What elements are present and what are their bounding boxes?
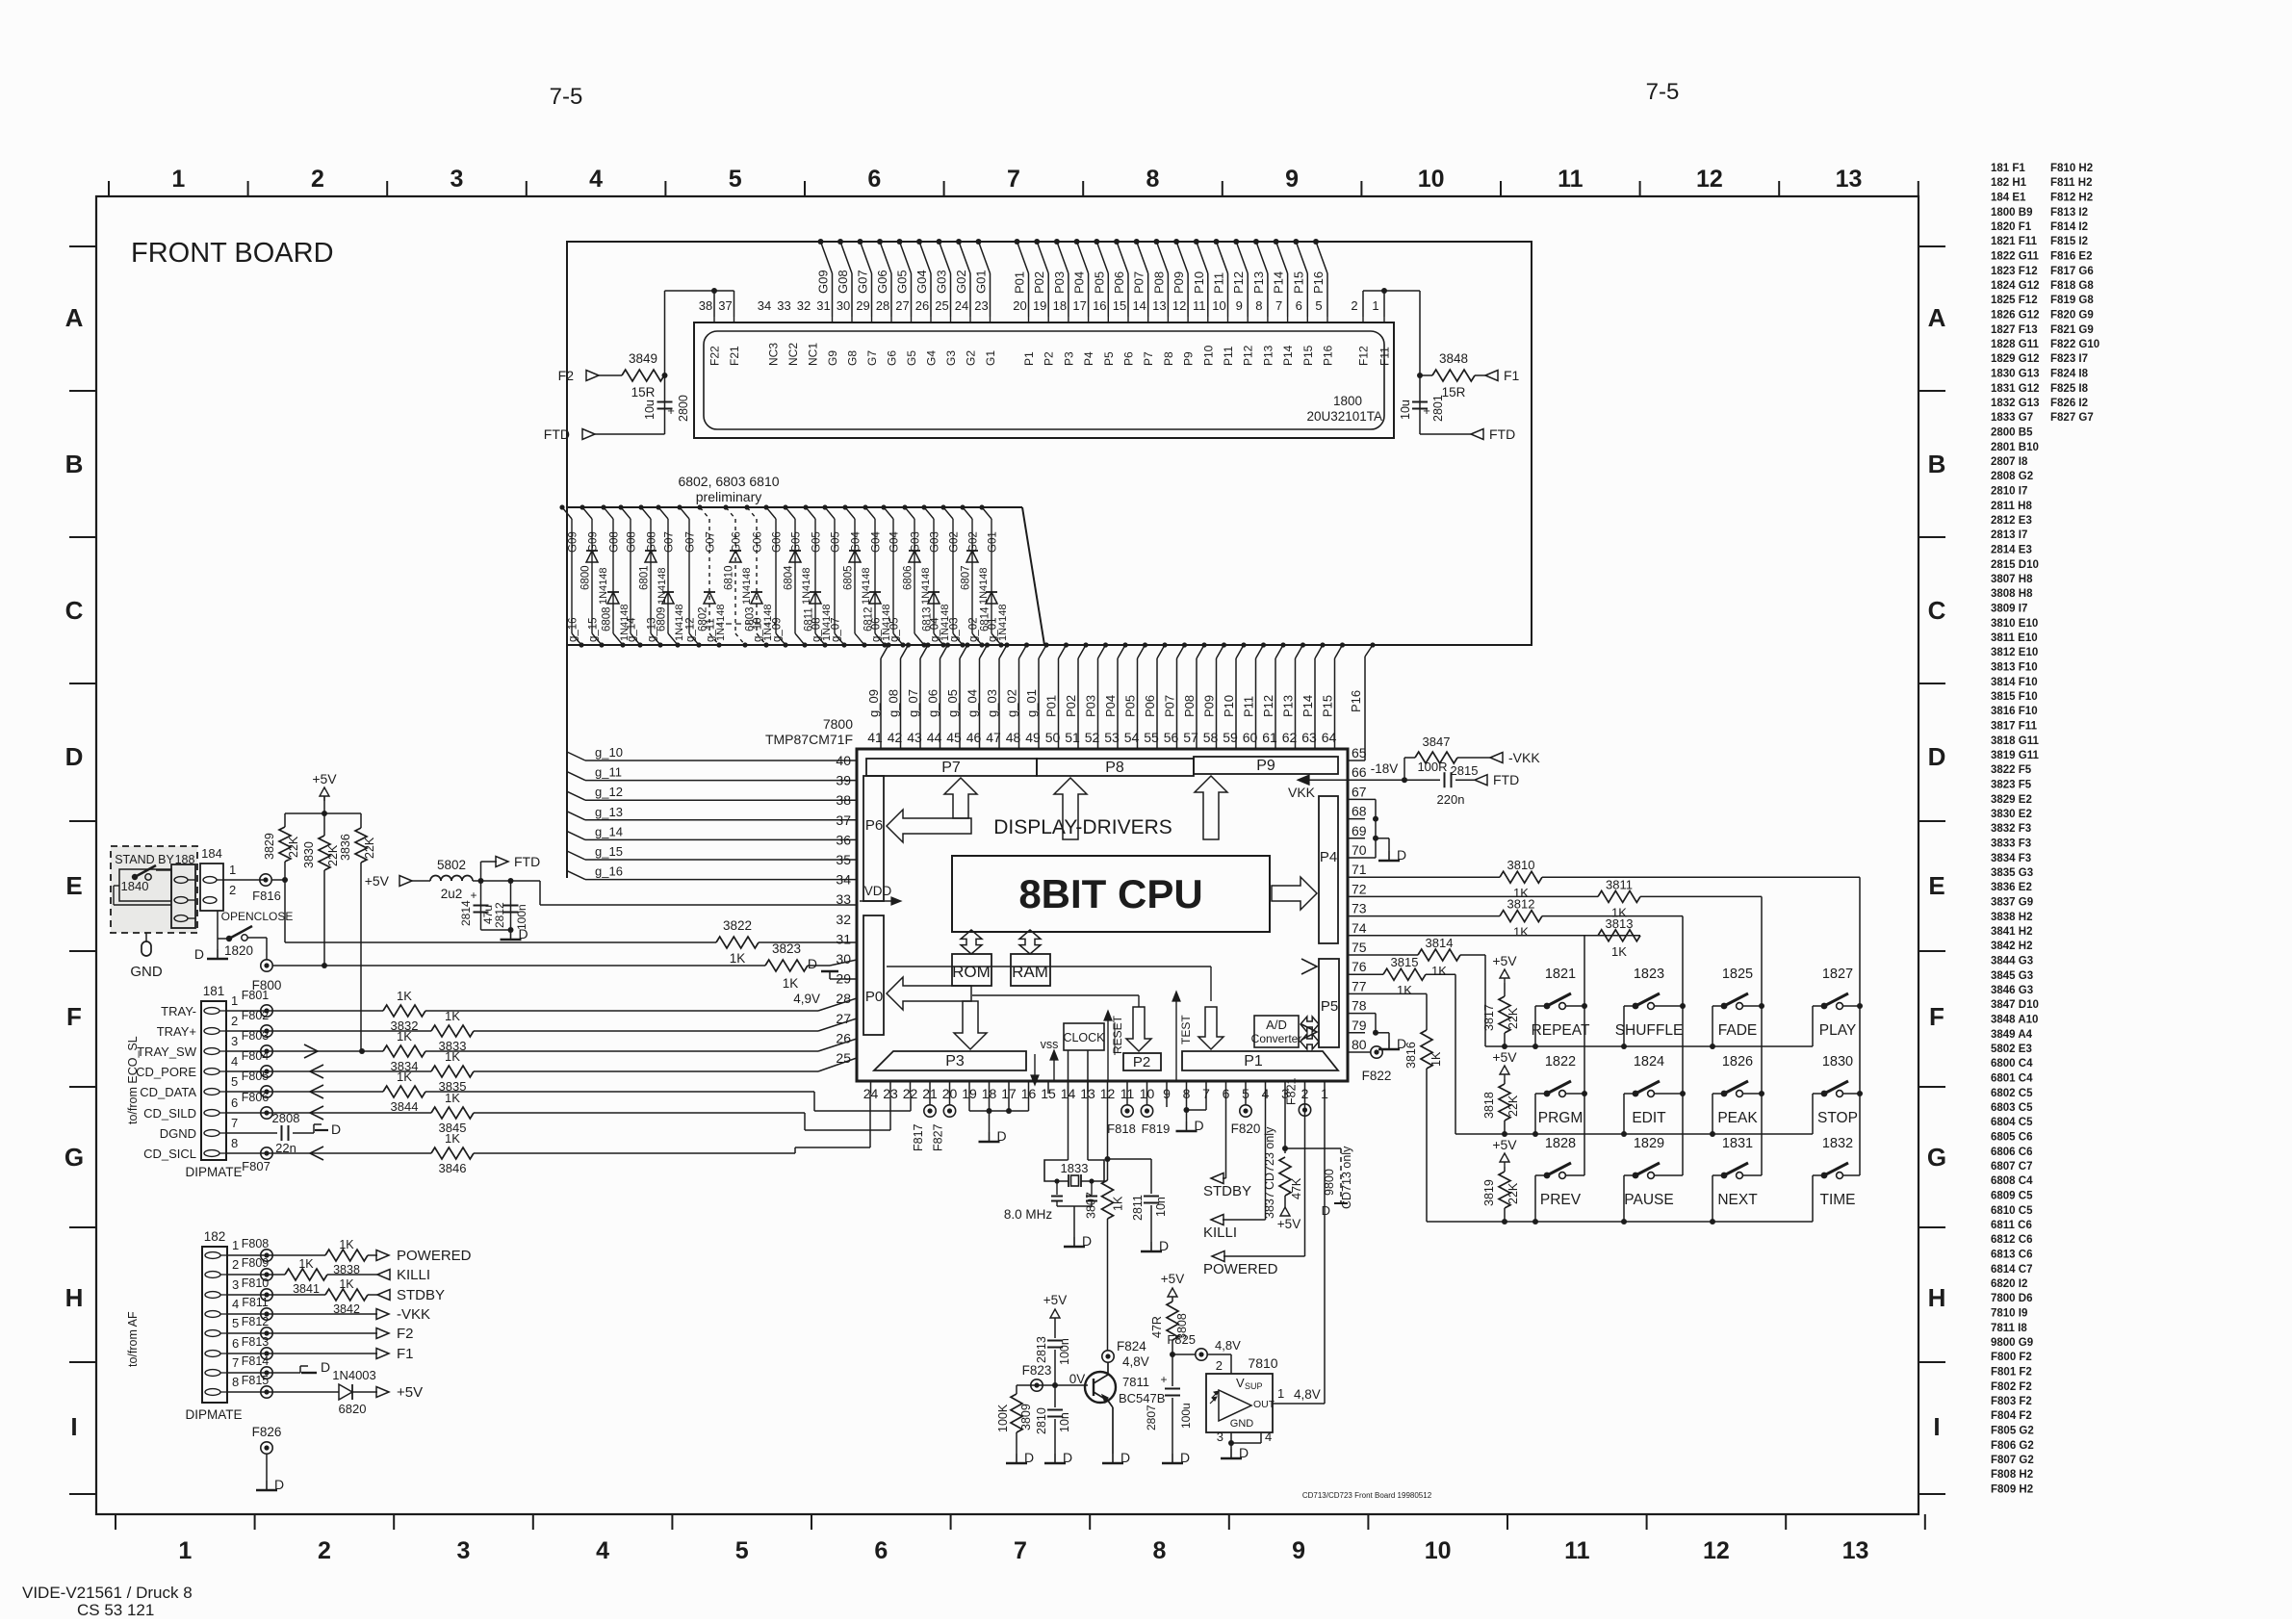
crystal caps	[1051, 1181, 1097, 1249]
key row bus 1	[1485, 1044, 1813, 1049]
svg-text:1N4148: 1N4148	[762, 604, 774, 641]
key switch 1825 FADE	[1713, 967, 1762, 1046]
svg-text:2807 I8: 2807 I8	[1991, 456, 2028, 468]
svg-text:80: 80	[1352, 1037, 1367, 1052]
svg-text:G06: G06	[875, 270, 889, 294]
svg-text:CLOCK: CLOCK	[1063, 1031, 1105, 1044]
svg-text:P10: P10	[1192, 271, 1206, 294]
key column line 2	[1680, 916, 1686, 1175]
svg-text:G07: G07	[856, 270, 870, 294]
connector 182 body	[185, 1229, 242, 1422]
ram data arrow	[1019, 930, 1041, 954]
svg-text:F815: F815	[242, 1374, 270, 1387]
svg-text:P14: P14	[1281, 345, 1295, 366]
test point F826	[252, 1425, 285, 1492]
svg-text:3848: 3848	[1439, 351, 1468, 366]
wire 3849 node vertical	[662, 291, 668, 434]
svg-text:NC3: NC3	[767, 343, 781, 366]
svg-text:12: 12	[1703, 1537, 1730, 1564]
reference designator index list	[1991, 163, 2099, 1496]
svg-text:G05: G05	[831, 531, 842, 553]
svg-text:G05: G05	[895, 270, 910, 294]
svg-text:3837 G9: 3837 G9	[1991, 897, 2033, 909]
svg-text:GND: GND	[1230, 1418, 1254, 1430]
display 1800 value label	[1306, 394, 1382, 424]
svg-text:D: D	[1082, 1233, 1092, 1249]
resistor 3815 1K	[1365, 955, 1455, 1134]
svg-text:1829: 1829	[1634, 1136, 1664, 1151]
port box P9	[1194, 757, 1338, 774]
svg-text:4: 4	[596, 1537, 609, 1564]
terminal +5V left	[365, 873, 430, 889]
svg-text:6806 C6: 6806 C6	[1991, 1147, 2032, 1158]
svg-text:P6: P6	[1122, 351, 1136, 366]
test line	[1172, 992, 1193, 1081]
svg-text:6: 6	[1296, 298, 1302, 313]
svg-text:F822: F822	[1362, 1069, 1392, 1083]
svg-text:1821: 1821	[1545, 967, 1576, 982]
svg-text:184 E1: 184 E1	[1991, 193, 2026, 204]
svg-text:22K: 22K	[326, 844, 340, 866]
svg-text:P14: P14	[1272, 271, 1286, 294]
svg-text:26: 26	[915, 298, 929, 313]
svg-text:g_16: g_16	[595, 864, 623, 879]
svg-text:13: 13	[1152, 298, 1166, 313]
port box P4	[1319, 796, 1338, 943]
svg-text:P07: P07	[1163, 695, 1177, 717]
key switch 1828 PREV	[1535, 1136, 1584, 1222]
svg-text:3812: 3812	[1507, 897, 1535, 912]
display P01-P16 cable drops	[1013, 239, 1328, 317]
wire -18V	[1365, 761, 1407, 783]
svg-text:P7: P7	[941, 760, 961, 776]
svg-text:66: 66	[1352, 764, 1367, 780]
svg-text:6800 C4: 6800 C4	[1991, 1058, 2033, 1070]
svg-text:CD713/CD723 Front Board 199805: CD713/CD723 Front Board 19980512	[1302, 1491, 1432, 1500]
cable drops to CPU pins 41-64	[866, 642, 1345, 749]
svg-text:3830 E2: 3830 E2	[1991, 809, 2032, 820]
svg-text:+5V: +5V	[312, 771, 337, 786]
wire 3848 node vertical	[1417, 291, 1423, 434]
svg-text:-18V: -18V	[1371, 761, 1399, 776]
svg-text:G08: G08	[836, 270, 850, 294]
arrow into P2	[1126, 1007, 1151, 1051]
connector 184 pins	[203, 877, 217, 904]
pins 67-70 bracket	[1365, 799, 1406, 863]
capacitor 2800 10u	[643, 395, 690, 422]
clock pins down	[1069, 1050, 1089, 1160]
svg-text:1K: 1K	[298, 1257, 314, 1271]
svg-text:8.0 MHz: 8.0 MHz	[1004, 1207, 1053, 1222]
svg-text:-VKK: -VKK	[397, 1306, 430, 1323]
svg-text:20U32101TA: 20U32101TA	[1306, 409, 1382, 424]
wire TRAY+ resistor 3833	[226, 1009, 857, 1053]
svg-text:H: H	[1928, 1283, 1946, 1312]
svg-text:RAM: RAM	[1012, 963, 1048, 981]
svg-text:3816: 3816	[1404, 1042, 1418, 1069]
svg-text:F2: F2	[558, 368, 575, 383]
svg-text:6: 6	[867, 166, 881, 193]
svg-text:10u: 10u	[1399, 400, 1412, 420]
svg-text:1821 F11: 1821 F11	[1991, 236, 2038, 247]
resistor 3813 1K	[1365, 916, 1640, 959]
svg-text:5802 E3: 5802 E3	[1991, 1044, 2032, 1055]
svg-text:D: D	[1024, 1450, 1034, 1465]
svg-text:1N4148: 1N4148	[657, 567, 668, 605]
svg-text:1K: 1K	[339, 1277, 354, 1291]
svg-text:F819: F819	[1142, 1121, 1171, 1136]
svg-text:3808 H8: 3808 H8	[1991, 588, 2033, 600]
wires 1840 to 188	[114, 870, 171, 905]
cpu core box	[952, 856, 1270, 932]
svg-text:3810: 3810	[1507, 858, 1535, 872]
svg-text:3817 F11: 3817 F11	[1991, 721, 2038, 733]
svg-text:25: 25	[935, 298, 948, 313]
svg-text:F812: F812	[242, 1315, 270, 1328]
svg-text:6802: 6802	[698, 606, 709, 632]
svg-text:F11: F11	[1378, 347, 1392, 366]
svg-text:2810 I7: 2810 I7	[1991, 486, 2027, 498]
cpu label DISPLAY-DRIVERS	[993, 816, 1172, 838]
svg-text:4,8V: 4,8V	[1215, 1338, 1241, 1353]
svg-text:G: G	[64, 1143, 84, 1172]
svg-text:g_04: g_04	[966, 689, 980, 717]
capacitor 2807 100u	[1145, 1354, 1193, 1465]
svg-text:3836: 3836	[339, 834, 352, 861]
rom data arrow	[961, 930, 982, 954]
svg-text:P09: P09	[1172, 271, 1186, 294]
svg-text:POWERED: POWERED	[397, 1248, 472, 1264]
svg-text:3846: 3846	[439, 1161, 467, 1175]
resistor 3816 1K	[1404, 1030, 1443, 1222]
wire F22/F21 header	[665, 288, 734, 317]
svg-text:1830 G13: 1830 G13	[1991, 369, 2040, 380]
svg-text:P04: P04	[1072, 271, 1087, 294]
svg-text:3807: 3807	[1085, 1192, 1098, 1219]
svg-text:G08: G08	[647, 531, 658, 553]
cpu right pin numbers 65-80	[1352, 745, 1367, 1052]
capacitor 2808 22n	[226, 1111, 314, 1155]
svg-text:F825 I8: F825 I8	[2050, 383, 2089, 395]
wire F2	[227, 1326, 414, 1342]
cpu core label 8BIT CPU	[1018, 871, 1202, 916]
wire CD_SILD resistor 3845	[226, 1091, 890, 1135]
svg-text:17: 17	[1072, 298, 1086, 313]
svg-text:63: 63	[1301, 730, 1317, 745]
svg-text:CD713 only: CD713 only	[1340, 1146, 1353, 1209]
svg-text:G04: G04	[871, 531, 883, 553]
resistor 3830 22K	[302, 813, 340, 966]
svg-text:CD_SICL: CD_SICL	[143, 1147, 196, 1161]
svg-text:D: D	[1239, 1445, 1249, 1460]
svg-text:48: 48	[1006, 730, 1021, 745]
svg-text:100u: 100u	[1179, 1403, 1193, 1429]
svg-text:51: 51	[1065, 730, 1080, 745]
cable spine left	[566, 645, 568, 878]
svg-text:100R: 100R	[1417, 760, 1447, 774]
svg-text:g_02: g_02	[968, 617, 980, 642]
svg-text:42: 42	[888, 730, 903, 745]
svg-text:G08: G08	[627, 531, 638, 553]
svg-text:BC547B: BC547B	[1119, 1391, 1165, 1405]
svg-text:72: 72	[1352, 881, 1367, 896]
ic 7810 box	[1206, 1355, 1278, 1432]
svg-text:56: 56	[1164, 730, 1179, 745]
svg-text:+: +	[667, 403, 675, 418]
svg-text:3818: 3818	[1482, 1092, 1496, 1119]
svg-text:F826 I2: F826 I2	[2050, 398, 2088, 409]
svg-text:F805 G2: F805 G2	[1991, 1426, 2034, 1437]
9800 CD713 only	[1285, 1146, 1353, 1218]
svg-text:10: 10	[1212, 298, 1225, 313]
svg-text:3819: 3819	[1482, 1179, 1496, 1206]
svg-text:1840: 1840	[121, 879, 149, 893]
test point F824	[1102, 1339, 1149, 1369]
svg-text:52: 52	[1085, 730, 1100, 745]
svg-text:STOP: STOP	[1817, 1110, 1858, 1126]
svg-text:P9: P9	[1256, 758, 1275, 774]
wire STDBY resistor 3842	[227, 1277, 445, 1316]
svg-text:3847: 3847	[1423, 735, 1451, 749]
svg-text:22K: 22K	[363, 837, 376, 859]
svg-text:3849 A4: 3849 A4	[1991, 1029, 2033, 1041]
svg-text:H: H	[65, 1283, 84, 1312]
svg-text:P0: P0	[865, 989, 883, 1005]
svg-text:F22: F22	[708, 346, 722, 366]
svg-text:P2: P2	[1043, 351, 1056, 366]
svg-text:G03: G03	[911, 531, 922, 553]
svg-text:3837: 3837	[1263, 1192, 1276, 1219]
svg-text:1833: 1833	[1061, 1161, 1089, 1175]
svg-text:3818 G11: 3818 G11	[1991, 735, 2039, 747]
svg-text:F804 F2: F804 F2	[1991, 1410, 2032, 1422]
connector 181 body	[185, 984, 242, 1179]
pins 19-16 bracket ground	[969, 1094, 1029, 1144]
svg-text:2814 E3: 2814 E3	[1991, 545, 2032, 556]
svg-text:182: 182	[204, 1229, 226, 1244]
svg-text:6810: 6810	[724, 565, 735, 590]
diode matrix top bus	[567, 507, 1044, 645]
svg-text:47: 47	[986, 730, 1001, 745]
svg-text:2811 H8: 2811 H8	[1991, 501, 2032, 512]
svg-text:75: 75	[1352, 940, 1367, 955]
svg-text:P15: P15	[1321, 695, 1335, 717]
svg-text:3846 G3: 3846 G3	[1991, 985, 2033, 996]
svg-text:28: 28	[876, 298, 889, 313]
test points F818 F819	[1107, 1094, 1170, 1136]
capacitor 2814 47u	[459, 881, 495, 930]
svg-text:F816 E2: F816 E2	[2050, 251, 2092, 263]
cpu internal bus lines	[887, 967, 1211, 1007]
ic 7800 reference label	[765, 716, 853, 747]
svg-text:3845 G3: 3845 G3	[1991, 970, 2033, 982]
wire CD_PORE resistor 3835	[226, 1049, 857, 1094]
svg-text:A: A	[1928, 303, 1946, 332]
svg-text:9: 9	[1236, 298, 1243, 313]
svg-text:7: 7	[1275, 298, 1282, 313]
svg-text:6: 6	[874, 1537, 888, 1564]
svg-text:F815 I2: F815 I2	[2050, 236, 2088, 247]
svg-text:P5: P5	[1102, 351, 1116, 366]
svg-text:64: 64	[1322, 730, 1337, 745]
diode matrix columns	[559, 504, 1003, 647]
svg-text:DIPMATE: DIPMATE	[185, 1165, 242, 1179]
test point F822	[1362, 1046, 1392, 1083]
svg-text:1: 1	[178, 1537, 192, 1564]
svg-text:G4: G4	[925, 350, 939, 366]
svg-text:24: 24	[955, 298, 968, 313]
svg-text:3838 H2: 3838 H2	[1991, 912, 2032, 923]
svg-text:CD_PORE: CD_PORE	[136, 1065, 196, 1079]
svg-text:43: 43	[907, 730, 922, 745]
svg-text:2801: 2801	[1431, 395, 1445, 422]
key switch 1822 PRGM	[1535, 1054, 1584, 1134]
svg-text:P04: P04	[1103, 695, 1118, 717]
svg-text:8: 8	[1146, 166, 1160, 193]
svg-text:10n: 10n	[1154, 1197, 1168, 1217]
svg-text:3834 F3: 3834 F3	[1991, 853, 2031, 864]
svg-text:57: 57	[1183, 730, 1198, 745]
svg-text:P01: P01	[1013, 271, 1027, 294]
display pin numbers	[699, 298, 1379, 313]
svg-text:1824 G12: 1824 G12	[1991, 280, 2040, 292]
svg-text:G03: G03	[935, 270, 949, 294]
svg-text:68: 68	[1352, 804, 1367, 819]
svg-text:GND: GND	[130, 964, 163, 980]
svg-text:6807: 6807	[961, 565, 972, 590]
switch 1820	[218, 926, 253, 958]
svg-text:3842 H2: 3842 H2	[1991, 941, 2032, 952]
vdd wire to pin 33	[481, 878, 858, 905]
svg-text:65: 65	[1352, 745, 1367, 760]
svg-text:+5V: +5V	[1492, 953, 1517, 968]
svg-text:10u: 10u	[643, 400, 657, 420]
svg-text:1823 F12: 1823 F12	[1991, 266, 2038, 277]
svg-text:B: B	[65, 450, 84, 478]
svg-text:1K: 1K	[397, 989, 412, 1003]
resistor 3819 22K	[1482, 1137, 1520, 1222]
svg-text:2811: 2811	[1131, 1195, 1145, 1221]
wire POWERED resistor 3838	[227, 1238, 472, 1276]
svg-text:29: 29	[856, 298, 869, 313]
wire pin1 to 7810 out	[1324, 1094, 1326, 1404]
svg-text:1822 G11: 1822 G11	[1991, 251, 2039, 263]
svg-text:1: 1	[231, 993, 238, 1008]
svg-text:45: 45	[946, 730, 962, 745]
svg-text:F813 I2: F813 I2	[2050, 207, 2088, 219]
svg-text:6808: 6808	[602, 606, 613, 632]
key switch 1832 TIME	[1813, 1136, 1860, 1222]
svg-text:G2: G2	[965, 350, 978, 366]
svg-text:P13: P13	[1261, 345, 1275, 366]
adc data arrows	[1301, 1017, 1319, 1049]
wire 3822 net	[285, 880, 716, 942]
column numbers 1-13	[171, 166, 1868, 1564]
svg-text:P2: P2	[1133, 1054, 1150, 1070]
svg-text:G06: G06	[772, 531, 784, 553]
svg-text:KILLI: KILLI	[1203, 1224, 1237, 1241]
svg-text:14: 14	[1132, 298, 1146, 313]
connector 188 pins	[174, 877, 195, 922]
svg-text:8: 8	[232, 1375, 239, 1389]
connector 182 pins	[205, 1238, 239, 1395]
ic 7810 out wire	[1273, 1386, 1325, 1404]
terminal FTD left	[544, 426, 665, 442]
svg-text:44: 44	[927, 730, 942, 745]
svg-text:D: D	[274, 1477, 284, 1492]
svg-text:+: +	[1423, 403, 1430, 418]
svg-text:G05: G05	[811, 531, 823, 553]
connector 188	[171, 864, 195, 928]
resistor 3817 22K	[1482, 953, 1520, 1046]
svg-text:2808: 2808	[272, 1111, 300, 1125]
svg-text:6813 C6: 6813 C6	[1991, 1250, 2032, 1261]
svg-text:g_12: g_12	[595, 785, 623, 799]
test points F817 F827	[912, 1094, 956, 1151]
svg-text:4: 4	[232, 1297, 239, 1311]
svg-text:2812 E3: 2812 E3	[1991, 515, 2032, 527]
resistor 3836 22K	[339, 813, 376, 1050]
svg-text:F821 G9: F821 G9	[2050, 324, 2094, 336]
wire 184 pin2 down	[217, 911, 219, 939]
svg-text:20: 20	[1013, 298, 1026, 313]
svg-text:22K: 22K	[287, 836, 300, 858]
test point F821	[1285, 1077, 1311, 1155]
svg-text:F822 G10: F822 G10	[2050, 339, 2099, 350]
base network	[1017, 1382, 1088, 1388]
svg-text:70: 70	[1352, 842, 1367, 858]
svg-text:g_10: g_10	[595, 745, 623, 760]
svg-text:F1: F1	[397, 1346, 414, 1362]
column tick marks	[109, 181, 1925, 1530]
svg-text:D: D	[1397, 847, 1406, 863]
svg-text:10: 10	[1418, 166, 1445, 193]
svg-text:1830: 1830	[1822, 1054, 1853, 1070]
svg-text:G3: G3	[944, 350, 958, 366]
svg-text:2807: 2807	[1145, 1405, 1158, 1431]
svg-text:1822: 1822	[1545, 1054, 1576, 1070]
svg-text:F813: F813	[242, 1335, 270, 1349]
svg-text:1N4148: 1N4148	[598, 567, 609, 605]
svg-text:2800: 2800	[677, 395, 690, 422]
svg-text:3830: 3830	[302, 841, 316, 868]
wire pin77 to 3816	[1365, 993, 1427, 1030]
svg-text:TEST: TEST	[1179, 1015, 1193, 1044]
svg-text:SHUFFLE: SHUFFLE	[1615, 1022, 1684, 1039]
svg-text:7810 I9: 7810 I9	[1991, 1308, 2027, 1320]
svg-text:7800: 7800	[823, 716, 853, 732]
resistor 3822 1K	[716, 918, 857, 966]
svg-text:D: D	[331, 1121, 341, 1137]
gnd bulb	[130, 933, 163, 980]
arrow into P0	[887, 977, 971, 1010]
svg-text:2: 2	[311, 166, 324, 193]
svg-text:PAUSE: PAUSE	[1624, 1192, 1673, 1208]
svg-text:P16: P16	[1322, 345, 1335, 366]
svg-text:12: 12	[1696, 166, 1723, 193]
svg-text:2813 I7: 2813 I7	[1991, 529, 2027, 541]
vss label and arrows	[1031, 1038, 1058, 1085]
test point F800	[252, 960, 282, 992]
svg-text:4,8V: 4,8V	[1294, 1387, 1321, 1402]
capacitor 2801 10u	[1399, 395, 1445, 422]
svg-text:1831 G12: 1831 G12	[1991, 383, 2040, 395]
display rotated pin names	[708, 343, 1392, 366]
svg-text:3819 G11: 3819 G11	[1991, 750, 2039, 761]
display pin stubs	[714, 317, 1384, 322]
svg-text:1K: 1K	[445, 1009, 460, 1023]
svg-text:3836 E2: 3836 E2	[1991, 882, 2032, 893]
